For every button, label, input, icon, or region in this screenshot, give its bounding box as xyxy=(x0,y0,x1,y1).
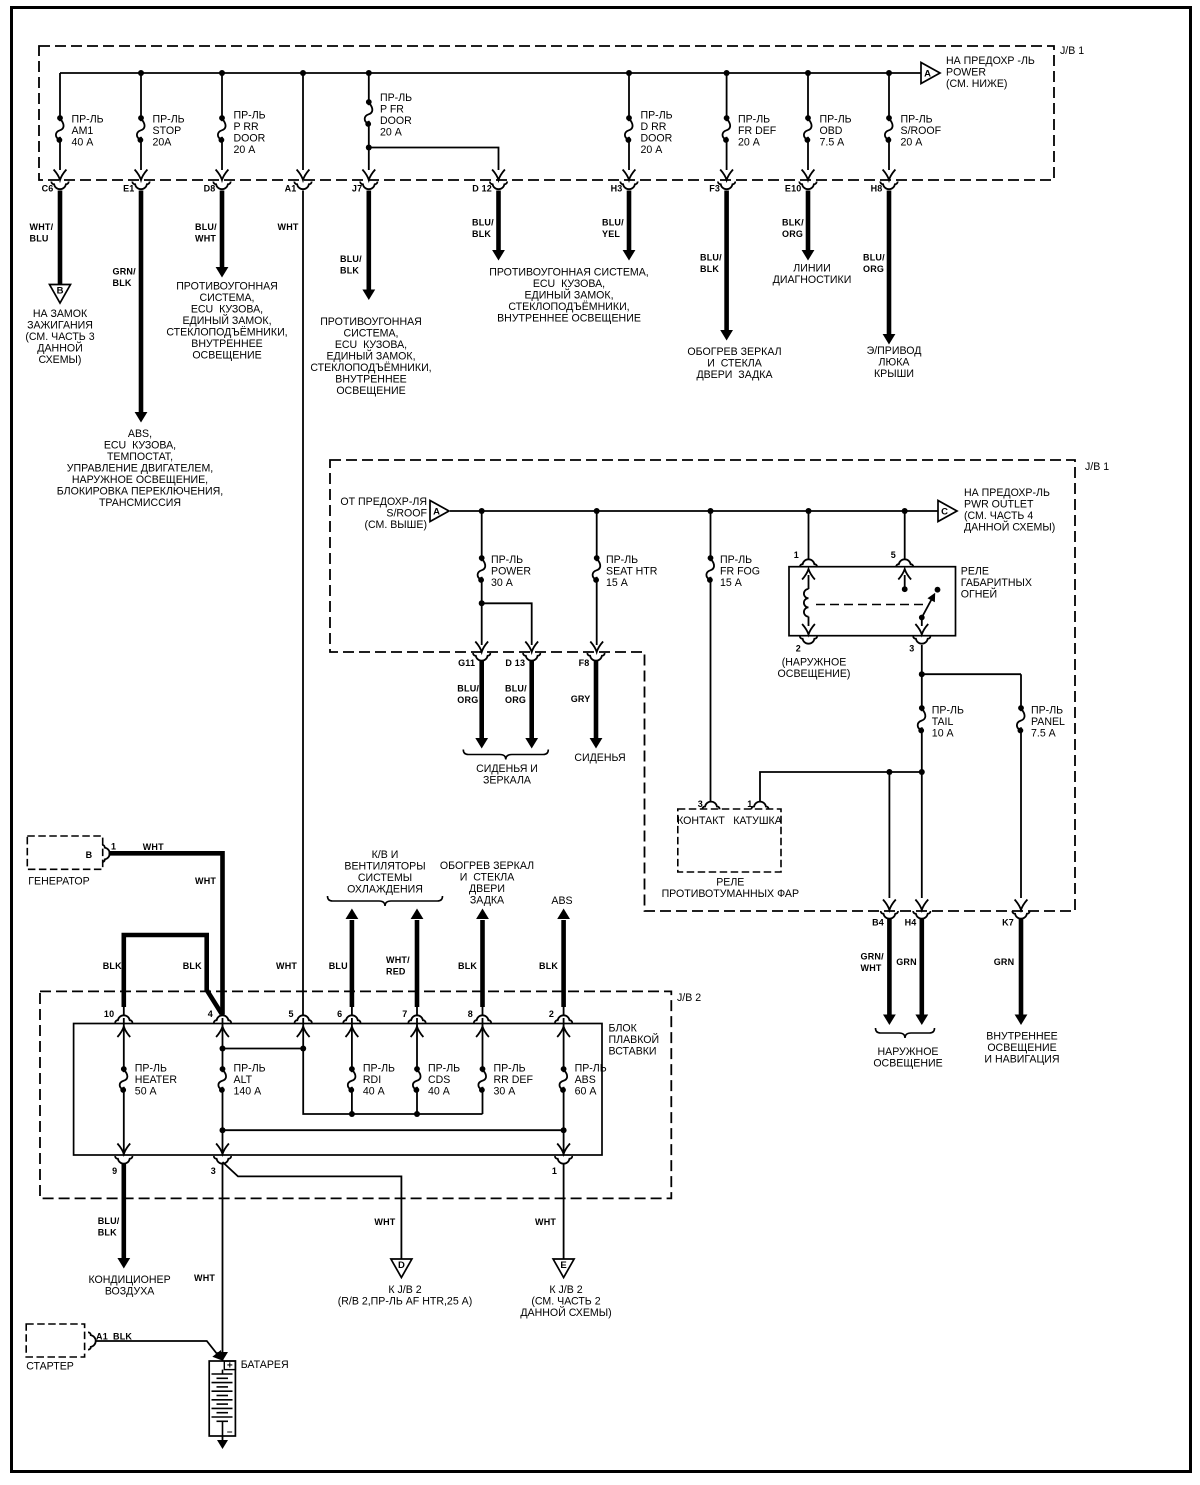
svg-text:ВСТАВКИ: ВСТАВКИ xyxy=(609,1046,657,1058)
svg-text:B: B xyxy=(86,850,93,860)
svg-text:АМ1: АМ1 xyxy=(72,125,94,137)
svg-text:ECU КУЗОВА,: ECU КУЗОВА, xyxy=(191,304,263,316)
svg-text:BLU/: BLU/ xyxy=(340,254,362,264)
svg-text:Э/ПРИВОД: Э/ПРИВОД xyxy=(867,345,922,357)
svg-text:НА ПРЕДОХР -ЛЬ: НА ПРЕДОХР -ЛЬ xyxy=(946,55,1035,67)
svg-text:НАРУЖНОЕ ОСВЕЩЕНИЕ,: НАРУЖНОЕ ОСВЕЩЕНИЕ, xyxy=(72,474,208,486)
svg-text:3: 3 xyxy=(698,799,703,809)
svg-text:F3: F3 xyxy=(709,184,720,194)
svg-text:7.5 А: 7.5 А xyxy=(1031,728,1057,740)
svg-text:C6: C6 xyxy=(42,184,54,194)
svg-text:РЕЛЕ: РЕЛЕ xyxy=(961,566,989,578)
svg-text:STOP: STOP xyxy=(153,125,182,137)
svg-text:ТРАНСМИССИЯ: ТРАНСМИССИЯ xyxy=(99,497,181,509)
svg-text:ПЛАВКОЙ: ПЛАВКОЙ xyxy=(609,1033,660,1046)
svg-text:ПР-ЛЬ: ПР-ЛЬ xyxy=(234,110,266,122)
svg-text:J/B 1: J/B 1 xyxy=(1060,45,1084,57)
svg-text:3: 3 xyxy=(211,1166,216,1176)
svg-text:J/B 2: J/B 2 xyxy=(677,992,701,1004)
svg-text:GRN/: GRN/ xyxy=(861,952,885,962)
svg-text:TAIL: TAIL xyxy=(932,716,954,728)
svg-text:HEATER: HEATER xyxy=(135,1074,178,1086)
svg-text:ECU КУЗОВА,: ECU КУЗОВА, xyxy=(533,278,605,290)
svg-text:ВОЗДУХА: ВОЗДУХА xyxy=(105,1286,155,1298)
svg-text:9: 9 xyxy=(112,1166,117,1176)
svg-text:BLU: BLU xyxy=(30,234,49,244)
svg-text:1: 1 xyxy=(794,550,799,560)
svg-text:ПР-ЛЬ: ПР-ЛЬ xyxy=(363,1062,395,1074)
svg-text:H3: H3 xyxy=(611,184,623,194)
svg-text:BLU/: BLU/ xyxy=(98,1216,120,1226)
svg-text:И СТЕКЛА: И СТЕКЛА xyxy=(460,872,515,884)
svg-text:ПР-ЛЬ: ПР-ЛЬ xyxy=(494,1062,526,1074)
svg-text:СИСТЕМА,: СИСТЕМА, xyxy=(344,328,399,340)
svg-text:ORG: ORG xyxy=(782,229,803,239)
svg-text:ПР-ЛЬ: ПР-ЛЬ xyxy=(575,1062,607,1074)
svg-text:ПР-ЛЬ: ПР-ЛЬ xyxy=(234,1062,266,1074)
svg-text:20А: 20А xyxy=(153,137,173,149)
svg-text:BLU/: BLU/ xyxy=(457,684,479,694)
svg-text:1: 1 xyxy=(747,799,752,809)
svg-text:ПР-ЛЬ: ПР-ЛЬ xyxy=(428,1062,460,1074)
svg-text:ABS: ABS xyxy=(551,895,572,907)
svg-text:J/B 1: J/B 1 xyxy=(1085,461,1109,473)
svg-text:ОГНЕЙ: ОГНЕЙ xyxy=(961,588,997,601)
svg-text:4: 4 xyxy=(208,1009,213,1019)
svg-text:D: D xyxy=(398,1260,405,1271)
svg-text:ОСВЕЩЕНИЕ): ОСВЕЩЕНИЕ) xyxy=(778,668,851,680)
svg-text:(СМ. ВЫШЕ): (СМ. ВЫШЕ) xyxy=(364,519,427,531)
svg-text:WHT: WHT xyxy=(535,1217,556,1227)
svg-text:E: E xyxy=(560,1260,566,1271)
svg-text:PWR OUTLET: PWR OUTLET xyxy=(964,499,1034,511)
svg-text:ORG: ORG xyxy=(505,695,526,705)
svg-text:2: 2 xyxy=(796,644,801,654)
svg-text:BLK: BLK xyxy=(113,278,132,288)
svg-text:140 А: 140 А xyxy=(234,1085,263,1097)
svg-text:SEAT HTR: SEAT HTR xyxy=(606,566,658,578)
svg-text:ЗАЖИГАНИЯ: ЗАЖИГАНИЯ xyxy=(27,320,93,332)
svg-text:ЗЕРКАЛА: ЗЕРКАЛА xyxy=(483,775,532,787)
svg-text:БЛОКИРОВКА ПЕРЕКЛЮЧЕНИЯ,: БЛОКИРОВКА ПЕРЕКЛЮЧЕНИЯ, xyxy=(57,486,224,498)
svg-text:ECU КУЗОВА,: ECU КУЗОВА, xyxy=(335,339,407,351)
svg-text:CDS: CDS xyxy=(428,1074,450,1086)
svg-text:S/ROOF: S/ROOF xyxy=(386,508,427,520)
svg-text:ЛЮКА: ЛЮКА xyxy=(879,357,911,369)
svg-text:ДИАГНОСТИКИ: ДИАГНОСТИКИ xyxy=(773,274,852,286)
svg-text:H4: H4 xyxy=(905,918,917,928)
svg-text:ЛИНИИ: ЛИНИИ xyxy=(793,263,830,275)
svg-text:FR FOG: FR FOG xyxy=(720,566,760,578)
svg-text:WHT: WHT xyxy=(195,876,216,886)
svg-text:WHT: WHT xyxy=(194,1273,215,1283)
svg-text:A: A xyxy=(924,69,931,80)
svg-text:ЕДИНЫЙ ЗАМОК,: ЕДИНЫЙ ЗАМОК, xyxy=(182,314,271,327)
svg-text:НА ЗАМОК: НА ЗАМОК xyxy=(33,308,88,320)
svg-text:WHT: WHT xyxy=(278,222,299,232)
svg-text:ПРОТИВОУГОННАЯ: ПРОТИВОУГОННАЯ xyxy=(320,316,422,328)
svg-text:ПР-ЛЬ: ПР-ЛЬ xyxy=(901,114,933,126)
svg-text:20 А: 20 А xyxy=(380,127,403,139)
svg-text:ПРОТИВОУГОННАЯ: ПРОТИВОУГОННАЯ xyxy=(176,281,278,293)
svg-text:S/ROOF: S/ROOF xyxy=(901,125,942,137)
svg-text:ВЕНТИЛЯТОРЫ: ВЕНТИЛЯТОРЫ xyxy=(344,861,425,873)
svg-text:+: + xyxy=(227,1361,233,1372)
svg-text:WHT: WHT xyxy=(143,842,164,852)
svg-text:BLK: BLK xyxy=(183,961,202,971)
svg-text:BLK: BLK xyxy=(472,229,491,239)
svg-text:7.5 А: 7.5 А xyxy=(820,137,846,149)
svg-text:БАТАРЕЯ: БАТАРЕЯ xyxy=(241,1359,289,1371)
svg-text:(СМ. ЧАСТЬ 3: (СМ. ЧАСТЬ 3 xyxy=(25,331,94,343)
svg-text:(НАРУЖНОЕ: (НАРУЖНОЕ xyxy=(782,657,847,669)
svg-text:DOOR: DOOR xyxy=(380,115,412,127)
svg-text:ОСВЕЩЕНИЕ: ОСВЕЩЕНИЕ xyxy=(336,385,405,397)
svg-text:FR DEF: FR DEF xyxy=(738,125,777,137)
svg-text:ТЕМПОСТАТ,: ТЕМПОСТАТ, xyxy=(107,451,173,463)
svg-text:1: 1 xyxy=(111,842,116,852)
svg-text:СИДЕНЬЯ И: СИДЕНЬЯ И xyxy=(476,763,538,775)
svg-text:ПР-ЛЬ: ПР-ЛЬ xyxy=(606,554,638,566)
svg-text:P RR: P RR xyxy=(234,121,259,133)
svg-text:WHT: WHT xyxy=(374,1217,395,1227)
svg-text:ВНУТРЕННЕЕ ОСВЕЩЕНИЕ: ВНУТРЕННЕЕ ОСВЕЩЕНИЕ xyxy=(497,313,641,325)
svg-text:DOOR: DOOR xyxy=(234,133,266,145)
svg-text:WHT: WHT xyxy=(861,963,882,973)
svg-text:P FR: P FR xyxy=(380,104,404,116)
svg-text:СИСТЕМА,: СИСТЕМА, xyxy=(200,292,255,304)
svg-text:БЛОК: БЛОК xyxy=(609,1023,638,1035)
svg-text:G11: G11 xyxy=(458,658,475,668)
svg-text:С: С xyxy=(941,507,948,518)
svg-text:ПР-ЛЬ: ПР-ЛЬ xyxy=(72,114,104,126)
svg-text:WHT/: WHT/ xyxy=(386,955,410,965)
svg-text:ВНУТРЕННЕЕ: ВНУТРЕННЕЕ xyxy=(191,338,262,350)
svg-text:ОСВЕЩЕНИЕ: ОСВЕЩЕНИЕ xyxy=(987,1042,1056,1054)
svg-text:GRN/: GRN/ xyxy=(113,267,137,277)
svg-text:КАТУШКА: КАТУШКА xyxy=(733,815,782,827)
svg-text:НАРУЖНОЕ: НАРУЖНОЕ xyxy=(877,1046,938,1058)
svg-text:НА ПРЕДОХР-ЛЬ: НА ПРЕДОХР-ЛЬ xyxy=(964,487,1050,499)
svg-text:ОБОГРЕВ ЗЕРКАЛ: ОБОГРЕВ ЗЕРКАЛ xyxy=(687,346,781,358)
svg-text:5: 5 xyxy=(288,1009,293,1019)
svg-text:40 А: 40 А xyxy=(363,1085,386,1097)
svg-text:А: А xyxy=(433,507,440,518)
svg-text:BLK: BLK xyxy=(98,1228,117,1238)
svg-text:СТЕКЛОПОДЪЁМНИКИ,: СТЕКЛОПОДЪЁМНИКИ, xyxy=(508,301,629,313)
svg-text:B: B xyxy=(57,286,64,297)
svg-text:WHT/: WHT/ xyxy=(30,222,54,232)
svg-text:ПР-ЛЬ: ПР-ЛЬ xyxy=(491,554,523,566)
svg-text:GRN: GRN xyxy=(896,957,917,967)
svg-text:ПР-ЛЬ: ПР-ЛЬ xyxy=(738,114,770,126)
svg-text:ORG: ORG xyxy=(457,695,478,705)
svg-text:СТАРТЕР: СТАРТЕР xyxy=(26,1361,74,1373)
svg-text:BLK: BLK xyxy=(113,1332,132,1342)
svg-text:ПРОТИВОУГОННАЯ СИСТЕМА,: ПРОТИВОУГОННАЯ СИСТЕМА, xyxy=(489,267,649,279)
svg-text:СИДЕНЬЯ: СИДЕНЬЯ xyxy=(574,752,625,764)
svg-text:POWER: POWER xyxy=(946,67,986,79)
svg-text:ПР-ЛЬ: ПР-ЛЬ xyxy=(135,1062,167,1074)
svg-text:ПР-ЛЬ: ПР-ЛЬ xyxy=(380,92,412,104)
svg-text:СТЕКЛОПОДЪЁМНИКИ,: СТЕКЛОПОДЪЁМНИКИ, xyxy=(310,362,431,374)
svg-text:E10: E10 xyxy=(785,184,802,194)
svg-text:GRY: GRY xyxy=(571,694,591,704)
svg-text:40 А: 40 А xyxy=(428,1085,451,1097)
svg-text:BLU/: BLU/ xyxy=(195,222,217,232)
svg-text:ALT: ALT xyxy=(234,1074,253,1086)
svg-text:И НАВИГАЦИЯ: И НАВИГАЦИЯ xyxy=(984,1054,1059,1066)
svg-text:BLU/: BLU/ xyxy=(602,218,624,228)
svg-text:30 А: 30 А xyxy=(491,577,514,589)
svg-text:40 А: 40 А xyxy=(72,137,95,149)
svg-text:К/В И: К/В И xyxy=(372,849,399,861)
svg-text:ПР-ЛЬ: ПР-ЛЬ xyxy=(641,110,673,122)
svg-text:ГАБАРИТНЫХ: ГАБАРИТНЫХ xyxy=(961,577,1032,589)
svg-text:BLK: BLK xyxy=(103,961,122,971)
svg-text:BLU/: BLU/ xyxy=(505,684,527,694)
svg-text:ОБОГРЕВ ЗЕРКАЛ: ОБОГРЕВ ЗЕРКАЛ xyxy=(440,860,534,872)
svg-text:BLK: BLK xyxy=(539,961,558,971)
svg-text:ПР-ЛЬ: ПР-ЛЬ xyxy=(1031,705,1063,717)
svg-text:ПР-ЛЬ: ПР-ЛЬ xyxy=(153,114,185,126)
svg-text:J7: J7 xyxy=(352,184,362,194)
svg-text:E1: E1 xyxy=(123,184,134,194)
svg-text:2: 2 xyxy=(549,1009,554,1019)
svg-text:BLU/: BLU/ xyxy=(700,253,722,263)
svg-text:B4: B4 xyxy=(872,918,884,928)
svg-text:50 А: 50 А xyxy=(135,1085,158,1097)
svg-text:ДВЕРИ ЗАДКА: ДВЕРИ ЗАДКА xyxy=(696,369,773,381)
svg-text:1: 1 xyxy=(552,1166,557,1176)
svg-text:RED: RED xyxy=(386,967,406,977)
svg-text:10: 10 xyxy=(104,1009,114,1019)
svg-text:BLK: BLK xyxy=(340,266,359,276)
svg-text:(СМ. ЧАСТЬ 2: (СМ. ЧАСТЬ 2 xyxy=(531,1296,600,1308)
svg-text:ЕДИНЫЙ ЗАМОК,: ЕДИНЫЙ ЗАМОК, xyxy=(524,289,613,302)
svg-text:И СТЕКЛА: И СТЕКЛА xyxy=(707,358,762,370)
svg-text:СХЕМЫ): СХЕМЫ) xyxy=(39,354,82,366)
svg-text:GRN: GRN xyxy=(994,957,1015,967)
svg-text:F8: F8 xyxy=(579,658,590,668)
svg-text:ОТ ПРЕДОХР-ЛЯ: ОТ ПРЕДОХР-ЛЯ xyxy=(340,496,427,508)
svg-text:(СМ. ЧАСТЬ 4: (СМ. ЧАСТЬ 4 xyxy=(964,510,1033,522)
svg-text:5: 5 xyxy=(891,550,896,560)
svg-text:20 А: 20 А xyxy=(901,137,924,149)
svg-text:WHT: WHT xyxy=(195,234,216,244)
svg-text:ЕДИНЫЙ ЗАМОК,: ЕДИНЫЙ ЗАМОК, xyxy=(326,350,415,363)
svg-text:–: – xyxy=(227,1427,233,1438)
svg-text:ГЕНЕРАТОР: ГЕНЕРАТОР xyxy=(28,876,89,888)
svg-text:КРЫШИ: КРЫШИ xyxy=(874,368,914,380)
svg-text:КОНДИЦИОНЕР: КОНДИЦИОНЕР xyxy=(88,1274,170,1286)
svg-text:ДАННОЙ: ДАННОЙ xyxy=(37,342,82,355)
svg-text:УПРАВЛЕНИЕ ДВИГАТЕЛЕМ,: УПРАВЛЕНИЕ ДВИГАТЕЛЕМ, xyxy=(67,463,213,475)
svg-text:PANEL: PANEL xyxy=(1031,716,1065,728)
svg-text:ДАННОЙ СХЕМЫ): ДАННОЙ СХЕМЫ) xyxy=(964,521,1055,534)
svg-text:RR DEF: RR DEF xyxy=(494,1074,534,1086)
svg-text:BLU/: BLU/ xyxy=(863,253,885,263)
svg-text:OBD: OBD xyxy=(820,125,843,137)
svg-text:WHT: WHT xyxy=(276,961,297,971)
svg-text:8: 8 xyxy=(468,1009,473,1019)
svg-text:A1: A1 xyxy=(96,1332,108,1342)
svg-text:20 А: 20 А xyxy=(234,144,257,156)
svg-text:ДВЕРИ: ДВЕРИ xyxy=(469,883,505,895)
svg-text:D8: D8 xyxy=(204,184,216,194)
svg-text:20 А: 20 А xyxy=(641,144,664,156)
svg-text:H8: H8 xyxy=(871,184,883,194)
svg-text:K7: K7 xyxy=(1002,918,1014,928)
svg-text:ВНУТРЕННЕЕ: ВНУТРЕННЕЕ xyxy=(335,374,406,386)
svg-text:7: 7 xyxy=(402,1009,407,1019)
svg-text:ПР-ЛЬ: ПР-ЛЬ xyxy=(720,554,752,566)
svg-text:ЗАДКА: ЗАДКА xyxy=(470,895,505,907)
svg-text:ABS: ABS xyxy=(575,1074,596,1086)
svg-text:BLK: BLK xyxy=(700,264,719,274)
svg-text:6: 6 xyxy=(337,1009,342,1019)
svg-text:60 А: 60 А xyxy=(575,1085,598,1097)
svg-text:(СМ. НИЖЕ): (СМ. НИЖЕ) xyxy=(946,78,1007,90)
svg-text:A1: A1 xyxy=(285,184,297,194)
svg-text:BLK: BLK xyxy=(458,961,477,971)
svg-text:СИСТЕМЫ: СИСТЕМЫ xyxy=(358,872,412,884)
svg-text:D 12: D 12 xyxy=(472,184,492,194)
svg-text:(R/B 2,ПР-ЛЬ AF HTR,25 А): (R/B 2,ПР-ЛЬ AF HTR,25 А) xyxy=(338,1296,473,1308)
svg-text:ABS,: ABS, xyxy=(128,428,152,440)
svg-text:ВНУТРЕННЕЕ: ВНУТРЕННЕЕ xyxy=(986,1031,1057,1043)
svg-text:RDI: RDI xyxy=(363,1074,381,1086)
svg-text:15 А: 15 А xyxy=(720,577,743,589)
svg-text:BLU: BLU xyxy=(329,961,348,971)
svg-text:СТЕКЛОПОДЪЁМНИКИ,: СТЕКЛОПОДЪЁМНИКИ, xyxy=(166,327,287,339)
svg-text:ECU КУЗОВА,: ECU КУЗОВА, xyxy=(104,440,176,452)
svg-text:BLU/: BLU/ xyxy=(472,218,494,228)
svg-text:15 А: 15 А xyxy=(606,577,629,589)
svg-text:BLK/: BLK/ xyxy=(782,218,804,228)
svg-text:D RR: D RR xyxy=(641,121,667,133)
svg-text:КОНТАКТ: КОНТАКТ xyxy=(677,815,725,827)
svg-text:10 А: 10 А xyxy=(932,728,955,740)
svg-text:ОХЛАЖДЕНИЯ: ОХЛАЖДЕНИЯ xyxy=(347,884,423,896)
svg-text:ПРОТИВОТУМАННЫХ ФАР: ПРОТИВОТУМАННЫХ ФАР xyxy=(662,888,799,900)
svg-text:D 13: D 13 xyxy=(505,658,525,668)
svg-text:ПР-ЛЬ: ПР-ЛЬ xyxy=(932,705,964,717)
svg-text:POWER: POWER xyxy=(491,566,531,578)
svg-text:ДАННОЙ СХЕМЫ): ДАННОЙ СХЕМЫ) xyxy=(520,1306,611,1319)
svg-text:ОСВЕЩЕНИЕ: ОСВЕЩЕНИЕ xyxy=(192,350,261,362)
svg-text:К J/B 2: К J/B 2 xyxy=(388,1284,421,1296)
svg-text:ORG: ORG xyxy=(863,264,884,274)
svg-text:РЕЛЕ: РЕЛЕ xyxy=(716,877,744,889)
svg-text:ОСВЕЩЕНИЕ: ОСВЕЩЕНИЕ xyxy=(873,1058,942,1070)
svg-text:ПР-ЛЬ: ПР-ЛЬ xyxy=(820,114,852,126)
svg-text:DOOR: DOOR xyxy=(641,133,673,145)
svg-text:30 А: 30 А xyxy=(494,1085,517,1097)
svg-text:3: 3 xyxy=(909,644,914,654)
svg-text:20 А: 20 А xyxy=(738,137,761,149)
svg-text:К J/B 2: К J/B 2 xyxy=(549,1284,582,1296)
svg-text:YEL: YEL xyxy=(602,229,620,239)
